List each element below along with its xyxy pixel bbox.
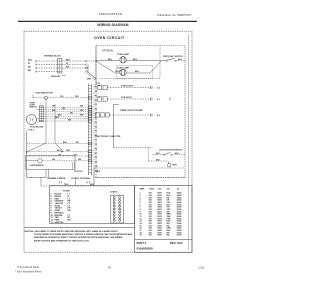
svg-text:OVEN SENSOR: OVEN SENSOR <box>30 165 45 167</box>
svg-text:P3: P3 <box>95 104 97 106</box>
power light switch <box>162 60 167 62</box>
wire row y161 through sensor <box>26 160 38 162</box>
svg-text:7-2: 7-2 <box>95 144 97 146</box>
OPTIONAL dashed box <box>159 46 161 79</box>
wire list box <box>50 185 135 223</box>
connector A pin pair row 1 <box>113 197 115 199</box>
wire lamp2 left <box>115 72 119 74</box>
svg-text:RD: RD <box>28 66 31 68</box>
vertical drop x93.4 to rail <box>93 168 95 186</box>
header rule <box>18 20 197 22</box>
svg-text:CODE: CODE <box>149 188 155 190</box>
svg-text:105: 105 <box>149 235 152 237</box>
connector plug row P10-1 <box>98 85 102 89</box>
svg-text:P6: P6 <box>95 131 97 133</box>
sensor enclosure box <box>26 155 76 169</box>
svg-text:19: 19 <box>140 235 142 237</box>
EOC dashed box edge <box>93 84 95 186</box>
svg-text:P8: P8 <box>95 148 97 150</box>
neutral drop wire <box>87 65 89 73</box>
cooling fan wires <box>36 118 88 120</box>
svg-text:GROUND: GROUND <box>51 76 60 78</box>
vertical wires pair down from EOC area <box>45 98 47 143</box>
connector A pin pair row 6 <box>113 211 115 213</box>
svg-text:BR: BR <box>68 219 71 221</box>
svg-text:CAUTION: DISCONNECT POWER SUPP: CAUTION: DISCONNECT POWER SUPPLY BEFORE … <box>24 230 118 233</box>
terminal block row BLK <box>36 60 57 62</box>
svg-text:LATCH MOTOR SWITCH: LATCH MOTOR SWITCH <box>159 149 183 152</box>
svg-text:BLK: BLK <box>175 153 180 155</box>
svg-text:P1: P1 <box>95 87 97 89</box>
diagonal wire from lamp 2 up <box>150 61 162 73</box>
svg-text:COL: COL <box>158 188 163 190</box>
svg-text:CONN A: CONN A <box>110 190 118 193</box>
connector A pin pair row 2 <box>113 200 115 202</box>
legend table box <box>135 185 192 252</box>
svg-text:P7: P7 <box>95 140 97 142</box>
svg-text:BLU: BLU <box>178 59 183 61</box>
svg-text:GRN/YEL: GRN/YEL <box>55 222 65 224</box>
oven sensor probe <box>38 159 42 163</box>
svg-text:OVEN LAMP: OVEN LAMP <box>117 66 130 69</box>
svg-text:BLK: BLK <box>57 150 62 152</box>
rail wire y177.5 with inline labels <box>27 177 47 179</box>
svg-text:DANGEROUS OPERATION. VERIFY PR: DANGEROUS OPERATION. VERIFY PROPER OPERA… <box>34 236 123 239</box>
svg-text:RD: RD <box>66 66 69 68</box>
svg-text:THERMAL LIMITER: THERMAL LIMITER <box>47 177 66 180</box>
svg-text:CONV FAN MOTOR: CONV FAN MOTOR <box>35 92 53 95</box>
latch motor <box>168 164 172 168</box>
svg-text:# Functional Parts: # Functional Parts <box>18 265 40 269</box>
svg-text:P2: P2 <box>98 97 100 99</box>
svg-text:OVN LIGHT: OVN LIGHT <box>121 97 133 99</box>
svg-text:PART #: PART # <box>137 241 147 245</box>
svg-text:P1: P1 <box>98 86 100 88</box>
outer dotted page border <box>24 31 192 252</box>
wire switch to border <box>176 60 185 62</box>
svg-text:BLK: BLK <box>156 153 161 155</box>
svg-text:BLK: BLK <box>28 59 33 61</box>
svg-text:COOLING FAN: COOLING FAN <box>30 125 44 128</box>
timer board connector row <box>96 113 100 117</box>
svg-text:P5-2 P5-4: P5-2 P5-4 <box>74 170 83 173</box>
svg-text:2-1: 2-1 <box>95 100 97 102</box>
svg-text:P5: P5 <box>95 122 97 124</box>
svg-text:P10: P10 <box>95 166 98 168</box>
electronic oven control board edge connector strip <box>88 84 90 175</box>
svg-text:WIRING DIAGRAM: WIRING DIAGRAM <box>97 23 128 27</box>
wire lamp1 left <box>96 60 119 62</box>
vertical drop x75.5 <box>75 178 77 186</box>
left border vertical wire <box>26 131 28 178</box>
svg-text:RD: RD <box>167 235 170 237</box>
svg-text:BLK: BLK <box>66 59 71 61</box>
svg-text:BLU: BLU <box>115 71 120 73</box>
svg-text:OVEN LIGHT: OVEN LIGHT <box>121 86 134 88</box>
svg-text:REV: S02: REV: S02 <box>170 241 183 245</box>
wire row y156 with labels <box>27 155 89 157</box>
svg-text:WIRE: WIRE <box>140 188 146 190</box>
wire lamp2 right <box>127 72 150 74</box>
svg-text:SN: SN <box>68 210 71 212</box>
svg-text:BLU: BLU <box>108 59 113 61</box>
connector A block <box>111 195 124 223</box>
cooling fan motor <box>27 115 37 125</box>
svg-text:P9: P9 <box>95 157 97 159</box>
oven lamp 2 <box>120 69 126 75</box>
svg-text:TOD 2: TOD 2 <box>28 130 34 132</box>
svg-text:PWR LIGHT SWITCH: PWR LIGHT SWITCH <box>163 56 183 58</box>
wire from motor top to strip <box>36 109 39 111</box>
connector A pin pair row 9 <box>113 219 115 221</box>
inner dashed box around oven lamp 2 <box>117 66 153 79</box>
wire end stub P10-2 <box>150 98 152 101</box>
diagonal fan-out wires <box>27 143 47 152</box>
svg-text:TB-2: TB-2 <box>64 184 68 186</box>
connector A pin pair row 4 <box>113 205 115 207</box>
wire row into EOC y143.5 <box>27 143 89 145</box>
convection fan motor wire right <box>48 97 89 99</box>
svg-text:BLU: BLU <box>133 59 138 61</box>
convection fan motor wire left hook <box>33 97 45 99</box>
svg-text:TERMINAL BLOCK: TERMINAL BLOCK <box>44 55 62 58</box>
timer to latch dashed wire <box>114 147 153 149</box>
node junction feed for lamps <box>95 60 97 62</box>
vertical wire x96 <box>95 46 97 88</box>
svg-text:600V: 600V <box>158 235 163 237</box>
latch motor wire row 2 <box>148 160 168 162</box>
svg-text:FPEW3085PFB: FPEW3085PFB <box>99 12 122 16</box>
svg-text:W: W <box>66 63 68 65</box>
svg-text:P2: P2 <box>95 95 97 97</box>
ground hatch strokes <box>84 71 86 73</box>
connector A pin pair row 7 <box>113 214 115 216</box>
svg-text:RD: RD <box>76 142 79 144</box>
large dashed schematic enclosure box <box>96 46 185 178</box>
terminal block left stub ticks <box>35 60 37 62</box>
svg-text:GRN: GRN <box>87 79 92 81</box>
vertical drop left x41 <box>40 178 42 187</box>
svg-text:W: W <box>87 67 89 69</box>
EOC junction pin squares <box>88 97 92 99</box>
connector A pin pair row 3 <box>113 202 115 204</box>
svg-text:MTR: MTR <box>173 165 178 167</box>
svg-text:GA: GA <box>167 187 170 190</box>
svg-text:OVEN LAMP: OVEN LAMP <box>117 53 130 56</box>
terminal block row RD <box>36 67 57 69</box>
svg-text:65: 65 <box>108 266 111 270</box>
tick on row2 <box>169 98 171 101</box>
svg-text:SAFETY NOTICE AND OPERATION OF: SAFETY NOTICE AND OPERATION OF THE DOOR … <box>34 239 90 242</box>
rail tick marks <box>45 169 47 177</box>
svg-text:TO DISCONNECTION WHEN SERVICIN: TO DISCONNECTION WHEN SERVICING CONTROLS… <box>34 233 133 236</box>
chassis ground symbol <box>86 71 97 80</box>
svg-text:1-2: 1-2 <box>95 91 97 93</box>
wires from switch strip to EOC <box>43 106 88 108</box>
svg-text:OPTIONAL: OPTIONAL <box>102 49 114 52</box>
svg-text:3-2: 3-2 <box>95 109 97 111</box>
rail wire y168 dashed <box>94 167 185 169</box>
oven lamp 1 <box>120 57 126 63</box>
wire row y151.5 <box>27 151 89 153</box>
svg-text:2-4: 2-4 <box>157 87 161 90</box>
latch switch wire row <box>153 154 164 156</box>
terminal block row BK <box>36 71 57 73</box>
svg-text:5304528208: 5304528208 <box>137 247 153 251</box>
separator rule above notes <box>24 227 135 229</box>
svg-text:TB-A: TB-A <box>96 170 101 173</box>
connector A pin pair row 5 <box>113 208 115 210</box>
connector A pin pair row 8 <box>113 217 115 219</box>
svg-text:AT: AT <box>177 187 180 190</box>
svg-text:BLU: BLU <box>135 71 140 73</box>
svg-text:16GA: 16GA <box>177 234 183 237</box>
diagonal wire to lamp 2 <box>96 61 115 73</box>
timer wire <box>110 114 151 116</box>
terminal block strip <box>57 59 62 74</box>
terminal block row W <box>36 64 57 66</box>
wire feed to lamp node <box>86 60 96 62</box>
title block separator <box>135 239 192 241</box>
svg-text:9-2: 9-2 <box>95 162 97 164</box>
oven light switch connector strip <box>39 106 43 122</box>
svg-text:TIMER CIRCUIT BOARD: TIMER CIRCUIT BOARD <box>120 109 143 112</box>
wire end stub P10-1 <box>150 86 152 89</box>
svg-text:4-1: 4-1 <box>157 98 161 101</box>
svg-text:Publication No. 808975727: Publication No. 808975727 <box>157 13 192 17</box>
svg-text:* Non-Illustrated Parts: * Non-Illustrated Parts <box>15 270 42 274</box>
svg-text:W: W <box>28 63 30 65</box>
timer board vertical line <box>113 105 115 148</box>
convection fan motor <box>44 96 47 99</box>
node dot left rail <box>26 151 28 153</box>
svg-text:11/12: 11/12 <box>198 266 205 270</box>
svg-text:4-2: 4-2 <box>157 114 161 117</box>
svg-text:BLK: BLK <box>63 142 68 144</box>
inner border line right side <box>188 34 190 251</box>
svg-text:P/LINE: P/LINE <box>63 191 70 193</box>
svg-text:BK: BK <box>28 70 31 72</box>
latch motor diagonal wire <box>167 161 170 164</box>
wire lamp1 right <box>127 60 161 62</box>
connector plug row P10-2 <box>98 97 102 101</box>
rail wire y186 dashed <box>41 185 114 187</box>
svg-text:CUTOUT OPTIONAL: CUTOUT OPTIONAL <box>71 177 91 180</box>
svg-text:8-1: 8-1 <box>95 153 97 155</box>
svg-text:OVEN CIRCUIT: OVEN CIRCUIT <box>94 36 125 40</box>
svg-text:ELECTRONIC OVEN CTRL: ELECTRONIC OVEN CTRL <box>96 136 122 138</box>
svg-text:5-2: 5-2 <box>95 126 97 128</box>
svg-text:BLK: BLK <box>156 159 161 161</box>
svg-text:SWITCH: SWITCH <box>30 107 38 109</box>
svg-text:BLK: BLK <box>55 117 60 119</box>
